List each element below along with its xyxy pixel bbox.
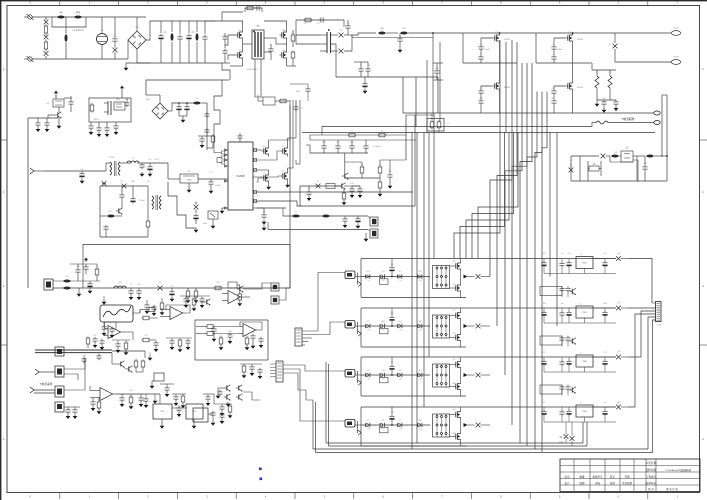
bus vert 557: [556, 133, 558, 327]
ecap R1 out: [602, 259, 607, 274]
svg-text:C12: C12: [316, 23, 319, 25]
sense box CN2: [427, 113, 449, 133]
ecap C28: [79, 171, 84, 184]
regulator U5: [180, 171, 198, 183]
cap C7: [264, 44, 274, 60]
startup branch: [290, 84, 311, 101]
ecap R1 r3: [566, 259, 571, 274]
bus vert 412: [411, 133, 413, 450]
svg-text:R12: R12: [366, 271, 369, 273]
cap C62: [119, 394, 124, 407]
ecap C54: [169, 288, 174, 302]
wire Q1-Q2 node: [230, 41, 252, 67]
mosfet Q10: [257, 168, 288, 182]
svg-text:C5: C5: [132, 158, 134, 160]
ground jack: [77, 288, 82, 297]
mosfet Q5 bottom: [493, 63, 500, 92]
blue marker dots: [259, 468, 262, 481]
transformer T3: [106, 157, 131, 176]
svg-text:222: 222: [596, 72, 599, 74]
wire 6 source: [572, 92, 574, 114]
svg-text:104: 104: [570, 160, 573, 162]
svg-text:R12: R12: [186, 288, 189, 290]
connector CN9: [652, 302, 662, 327]
gate loop left: [225, 35, 236, 60]
label cap bank: [373, 145, 381, 148]
cap C14: [433, 63, 443, 80]
wire CN7 to CH2: [302, 322, 345, 335]
ground U12: [192, 419, 197, 429]
AC input terminal J1 pin L: [24, 14, 34, 20]
subblock bottom wire: [300, 115, 415, 206]
wire stair to IC: [214, 80, 222, 136]
cap R1 r1: [541, 259, 546, 274]
svg-text:R12: R12: [452, 261, 455, 263]
channel CH1 rail: [361, 276, 430, 278]
svg-text:R88: R88: [592, 164, 595, 166]
wire Q7 gates: [257, 151, 281, 160]
svg-text:C12: C12: [608, 72, 611, 74]
svg-text:103: 103: [543, 253, 546, 255]
RC pair CH2: [380, 324, 389, 334]
varistor RV1: [44, 17, 49, 24]
bulk cap C3: [186, 21, 195, 63]
resistor R41: [192, 298, 197, 312]
transformer T1 secondary bars: [296, 27, 331, 53]
bottom rail 2: [329, 364, 588, 446]
ground CN: [355, 227, 368, 242]
bus vert 429: [428, 133, 430, 358]
label VCC1: [155, 159, 160, 161]
svg-text:1N41: 1N41: [282, 30, 286, 32]
ecap R2 out: [602, 308, 607, 323]
resistor R42: [242, 364, 247, 378]
cap C68: [183, 296, 188, 308]
resistor R5: [196, 21, 199, 63]
channel CH4 input jack: [345, 420, 361, 436]
ground IC: [220, 208, 225, 214]
svg-text:104: 104: [60, 12, 63, 14]
svg-text:103: 103: [399, 280, 402, 282]
xcap C35: [194, 202, 199, 213]
cap C6: [222, 49, 230, 63]
mosfet Q3: [264, 21, 287, 41]
waveform box: [100, 305, 133, 322]
rail 135 stub: [322, 131, 406, 137]
cap C6b: [551, 55, 556, 63]
svg-text:C5: C5: [552, 54, 554, 56]
mosfet Q4: [280, 44, 287, 61]
svg-text:K2306: K2306: [504, 87, 511, 89]
svg-text:C5: C5: [55, 96, 57, 98]
wire U8B wires: [222, 294, 250, 301]
svg-text:103: 103: [419, 330, 422, 332]
wire CH2 out: [628, 307, 656, 309]
svg-text:1N41: 1N41: [116, 99, 120, 101]
resistor R33: [219, 337, 224, 351]
cap C70: [249, 364, 254, 376]
cap C56: [227, 333, 232, 344]
wire L rail: [32, 16, 146, 18]
svg-text:共 页: 共 页: [648, 487, 654, 491]
wire secondary top loop: [296, 20, 344, 27]
conn CN5: [271, 283, 279, 291]
cap C40: [335, 140, 340, 153]
pin boxes left: [214, 136, 225, 164]
wire bulk bottom rail: [150, 62, 222, 64]
wire CH3 out: [628, 311, 656, 357]
cap C38 below IC: [257, 208, 267, 225]
mosfet Q9: [257, 170, 269, 184]
svg-text:R88: R88: [219, 336, 222, 338]
svg-text:103: 103: [419, 280, 422, 282]
svg-text:1N41: 1N41: [402, 28, 406, 30]
bus vert 434: [433, 113, 435, 259]
svg-text:数量: 数量: [579, 474, 585, 478]
svg-text:103: 103: [604, 402, 607, 404]
svg-text:1N41: 1N41: [643, 163, 647, 165]
wire K2 out: [64, 358, 85, 380]
bottom rail 4: [316, 320, 657, 453]
cap C15: [642, 156, 647, 181]
svg-text:CON: CON: [657, 325, 662, 327]
snubber R9: [595, 70, 599, 100]
cap C6d: [551, 99, 556, 113]
bypass loop wire: [52, 17, 86, 32]
wire bus1 on: [112, 351, 145, 358]
RC pair CH1: [380, 274, 389, 284]
cap C45: [344, 186, 360, 198]
svg-text:103: 103: [382, 379, 385, 381]
transistor Q16: [200, 299, 210, 306]
resistor RCH3c: [417, 373, 422, 381]
diode DR2 out: [593, 304, 628, 311]
wire right drop3: [662, 95, 667, 181]
svg-text:472: 472: [239, 50, 242, 52]
svg-text:R88: R88: [452, 433, 455, 435]
svg-text:100u: 100u: [203, 223, 207, 225]
svg-text:OUT2: OUT2: [673, 57, 680, 59]
input arrow T1s: [35, 369, 55, 375]
svg-text:C5: C5: [317, 181, 319, 183]
wire reg jog: [610, 156, 637, 181]
resistor R34: [245, 337, 250, 351]
wire relay bus drop: [64, 358, 85, 390]
wire BD2 out: [168, 103, 196, 111]
power arrow analog: [84, 257, 88, 274]
output node arrow CH3: [461, 370, 475, 381]
wire CH4 out: [628, 314, 656, 407]
cap C76: [173, 394, 178, 406]
gate loop 6 low: [554, 86, 566, 89]
svg-text:104: 104: [283, 50, 286, 52]
svg-text:222: 222: [246, 336, 249, 338]
left bus wire: [27, 118, 29, 288]
mosfet QCH2 hi: [450, 308, 461, 321]
svg-text:C12: C12: [603, 352, 606, 354]
wire left vert a: [427, 32, 434, 132]
wire 6 drain top: [572, 33, 574, 64]
wire CN8 route: [283, 373, 313, 400]
cap C57: [250, 334, 255, 349]
svg-text:C5: C5: [65, 33, 67, 35]
svg-text:104: 104: [453, 409, 456, 411]
labels 6: [558, 39, 584, 89]
output node arrow CH4: [461, 420, 475, 431]
cap C5c: [478, 89, 483, 99]
box U12: [186, 404, 203, 419]
RC pair CH3: [380, 373, 389, 383]
wire left vert b: [439, 42, 441, 121]
svg-text:103: 103: [382, 330, 385, 332]
resistor R38: [129, 394, 134, 409]
ground U11: [160, 419, 165, 429]
svg-text:R12: R12: [339, 30, 342, 32]
ground extra a: [148, 353, 153, 361]
svg-text:472: 472: [213, 325, 216, 327]
diode D4: [571, 154, 610, 159]
svg-text:C5: C5: [270, 45, 272, 47]
svg-text:1N41: 1N41: [120, 394, 124, 396]
svg-text:R88: R88: [603, 303, 606, 305]
resistor RCH1b: [397, 274, 402, 282]
svg-text:103: 103: [399, 379, 402, 381]
cap C9: [345, 20, 350, 35]
resistor R21: [292, 212, 299, 218]
wire U2 out: [633, 155, 645, 157]
transistor Q6: [116, 199, 122, 214]
svg-text:24v: 24v: [355, 227, 358, 229]
wire blockA rail: [28, 117, 58, 119]
svg-text:C12: C12: [195, 98, 198, 100]
svg-text:1N41: 1N41: [381, 321, 385, 323]
cap C43: [380, 160, 406, 189]
wire HV- jog: [222, 63, 230, 80]
mosfet Q7: [257, 140, 291, 157]
svg-text:R12: R12: [495, 32, 498, 34]
resistor R6: [291, 30, 295, 47]
wire vcc drop: [167, 163, 169, 179]
choke L7: [127, 161, 142, 163]
wire U10 out: [116, 394, 215, 404]
subblock outline B: [195, 320, 268, 360]
wire K4 parts: [64, 407, 80, 419]
wire T1 bottom pins: [255, 59, 263, 97]
svg-text:K2306: K2306: [504, 39, 511, 41]
svg-text:103: 103: [552, 44, 555, 46]
cap C74: [115, 340, 120, 353]
svg-text:104: 104: [399, 321, 402, 323]
svg-text:472: 472: [381, 28, 384, 30]
resistor R20: [342, 189, 347, 205]
labels 5: [485, 39, 511, 89]
resistor R45: [181, 394, 186, 408]
wire U10 in: [90, 386, 97, 398]
channel CH2 outline rails: [361, 308, 616, 347]
wire sec bottom: [331, 44, 439, 77]
svg-text:T电流取样: T电流取样: [622, 117, 635, 121]
cap C22: [104, 122, 109, 137]
bridge BD2: [146, 95, 168, 119]
title block table: [560, 459, 700, 492]
regulator UR4: [576, 403, 593, 423]
fuse F1: [57, 12, 64, 19]
svg-text:103: 103: [382, 280, 385, 282]
resistor RCH4b: [397, 423, 402, 431]
resistor R29: [237, 292, 242, 307]
resistor R28: [214, 286, 223, 290]
cap C6c: [551, 89, 556, 99]
svg-text:设计: 设计: [564, 481, 570, 485]
svg-text:C12: C12: [187, 40, 190, 42]
ground R18: [378, 192, 383, 197]
cap C6a: [551, 45, 556, 55]
OUT2 terminal: [615, 57, 681, 65]
svg-text:472: 472: [114, 36, 117, 38]
ground BD2: [179, 112, 187, 123]
wire snubber top: [590, 63, 616, 70]
channel CH3 outline rails: [361, 357, 616, 396]
svg-text:K2306: K2306: [577, 39, 584, 41]
ecap C12: [362, 77, 367, 94]
bus verts from bridge1: [500, 40, 506, 133]
svg-text:104: 104: [337, 142, 340, 144]
resistor R16: [345, 162, 364, 178]
svg-text:1N41: 1N41: [135, 27, 139, 29]
mosfet QCH1 hi: [450, 259, 461, 272]
resistor R25: [95, 264, 99, 281]
mosfet QCH2 lo: [450, 332, 461, 347]
cap C20 row: [88, 122, 93, 135]
wire CN7 to CH1: [302, 273, 345, 332]
svg-text:472: 472: [66, 276, 69, 278]
cap C61: [90, 398, 95, 412]
row R4 lower rail: [544, 421, 616, 423]
ground Q9: [266, 184, 271, 190]
diode DR3 out: [593, 353, 628, 360]
resistor quad box CH2: [433, 315, 450, 338]
svg-text:签字: 签字: [610, 474, 616, 478]
svg-text:R12: R12: [388, 171, 391, 173]
mosfet Q6 bottom: [566, 63, 573, 92]
svg-text:C12: C12: [378, 165, 381, 167]
svg-text:103: 103: [109, 157, 112, 159]
resistor R39: [160, 298, 165, 315]
lower box R1: [540, 286, 576, 297]
svg-text:C5: C5: [282, 146, 284, 148]
gate loop 5 low: [481, 86, 493, 89]
svg-text:C12: C12: [479, 54, 482, 56]
wire blockC feed: [146, 80, 229, 95]
resistor R19: [326, 184, 341, 189]
svg-text:103: 103: [217, 282, 220, 284]
cap C42: [363, 140, 368, 153]
cap C46: [352, 186, 363, 198]
wire Q3-Q4 node: [264, 38, 296, 66]
svg-text:103: 103: [453, 284, 456, 286]
resistor R13: [193, 102, 207, 151]
transistor Q13: [237, 285, 243, 292]
cap C71: [257, 368, 262, 379]
svg-text:472: 472: [367, 321, 370, 323]
ecap C25: [184, 102, 189, 112]
svg-text:R88: R88: [177, 103, 180, 105]
wire R3 taps: [65, 17, 67, 59]
transformer T1: [252, 24, 264, 59]
ground U5: [187, 183, 192, 193]
gate loop 5: [481, 38, 493, 45]
svg-text:103: 103: [367, 280, 370, 282]
svg-text:1N41: 1N41: [418, 420, 422, 422]
cap C13: [397, 33, 402, 53]
bottom rail 1: [326, 362, 583, 443]
cap C53: [136, 288, 141, 300]
svg-text:103: 103: [419, 370, 422, 372]
lower box R3: [540, 385, 576, 396]
svg-text:222: 222: [304, 23, 307, 25]
channel CH3 input jack: [345, 370, 361, 386]
svg-text:103: 103: [83, 355, 86, 357]
diode D6: [102, 181, 107, 186]
wire under box: [166, 337, 192, 339]
svg-text:R12: R12: [44, 19, 47, 21]
svg-text:472: 472: [453, 359, 456, 361]
cap C64: [144, 300, 149, 314]
ecap C48: [355, 216, 360, 229]
mosfet QCH4 lo: [450, 431, 461, 446]
resistor RCH2c: [417, 324, 422, 332]
ground Q10: [285, 182, 290, 188]
wire flyback rail: [44, 170, 106, 172]
opamp U8A: [167, 307, 186, 320]
power arrow blockB: [120, 85, 124, 98]
channel CH4 rail: [361, 424, 430, 426]
opto U3: [47, 99, 64, 107]
snubber loop above T1: [245, 5, 262, 12]
cap C78: [219, 404, 224, 416]
cap C5b: [478, 55, 483, 63]
wire reg right side: [633, 160, 638, 181]
svg-text:5V: 5V: [560, 437, 563, 439]
row R1 lower rail: [544, 273, 616, 275]
transformer T3 aux: [152, 195, 161, 210]
ecap R3 r3: [566, 357, 571, 372]
resistor RCH3a: [365, 373, 370, 381]
svg-text:制图: 制图: [579, 481, 585, 485]
rail mid2: [322, 123, 592, 127]
svg-text:104: 104: [552, 88, 555, 90]
svg-text:R88: R88: [350, 142, 353, 144]
diode DCH4 mid: [476, 423, 490, 428]
cap C16: [64, 96, 74, 112]
relay K4: [55, 402, 64, 412]
component value labels: [44, 12, 647, 435]
ground Q5: [57, 118, 62, 129]
resistor RCH2a: [365, 324, 370, 332]
relay K3: [55, 386, 64, 397]
channel CH3 rail: [361, 374, 430, 376]
zener D5: [569, 163, 574, 172]
box U14: [193, 408, 225, 426]
svg-text:4×10uF: 4×10uF: [373, 145, 381, 148]
cap C23: [113, 122, 118, 135]
lower box R2: [540, 336, 576, 347]
bus vert 424: [423, 133, 425, 408]
svg-text:1N41: 1N41: [542, 303, 546, 305]
svg-text:生效日期: 生效日期: [622, 481, 633, 485]
svg-text:103: 103: [367, 379, 370, 381]
ecap C36: [193, 214, 207, 233]
